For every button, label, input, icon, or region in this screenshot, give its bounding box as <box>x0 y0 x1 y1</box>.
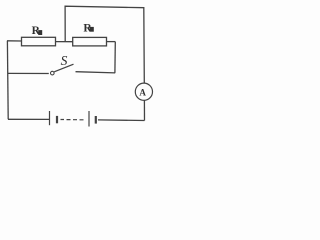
svg-text:S: S <box>61 53 68 68</box>
svg-text:A: A <box>139 87 146 97</box>
